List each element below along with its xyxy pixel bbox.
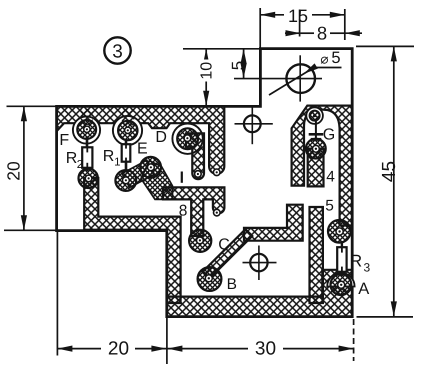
phi5 hole top right: [286, 64, 315, 93]
top-right copper: pentagon with slot + right edge band: [292, 106, 353, 226]
bottom copper band: [167, 270, 353, 317]
pad F: [77, 120, 96, 139]
svg-text:3: 3: [363, 261, 370, 275]
pad under R1: [115, 170, 136, 191]
svg-text:D: D: [155, 129, 167, 146]
pad C at bottom of branch: [189, 230, 211, 252]
svg-text:5: 5: [331, 49, 340, 67]
svg-text:10: 10: [199, 62, 216, 80]
svg-text:⌀: ⌀: [320, 52, 328, 67]
svg-text:3: 3: [112, 42, 123, 63]
clearance bite around pad E: [113, 116, 142, 145]
strip end pad hole (pad 2): [213, 169, 220, 176]
svg-text:30: 30: [255, 339, 276, 360]
dimension 8 top: [285, 10, 362, 37]
extension line y=49 left of board corner: [183, 48, 260, 50]
svg-text:5: 5: [229, 61, 248, 70]
svg-text:20: 20: [4, 161, 24, 181]
dimension 5 vertical: [243, 49, 245, 79]
svg-text:5: 5: [325, 198, 334, 215]
svg-text:C: C: [218, 237, 230, 254]
resistor R3 body: [337, 247, 346, 272]
pad A: [331, 274, 352, 295]
resistor R2 body: [82, 147, 92, 168]
svg-text:45: 45: [379, 161, 400, 182]
svg-text:15: 15: [288, 6, 308, 26]
pad B: [198, 267, 222, 291]
junction peanut: bridge polygon between pad under R1 and node pad: [122, 160, 154, 187]
pad 1 hole at trace end: [195, 171, 202, 178]
svg-text:8: 8: [179, 202, 188, 219]
svg-text:2: 2: [77, 159, 83, 171]
trace from pad 4 down: [308, 149, 324, 187]
free hole bottom middle: [250, 254, 267, 271]
svg-text:4: 4: [326, 168, 335, 185]
svg-text:E: E: [137, 141, 148, 158]
trace of pad B: horizontal band with up stub: [244, 205, 303, 241]
hatched neck joining pad F to band: [81, 109, 93, 125]
bottom dimensions 20 and 30: [57, 232, 353, 364]
svg-text:A: A: [358, 280, 369, 298]
lower middle vertical trace into bottom band: [310, 207, 323, 303]
pad 4: [306, 139, 326, 159]
clearance bite around pad A: [327, 273, 354, 287]
hatched neck joining pad E to band: [122, 109, 134, 126]
dimension 10 vertical: [205, 49, 207, 106]
svg-text:1: 1: [114, 157, 120, 169]
dimension 20 left: [4, 106, 56, 230]
svg-text:R: R: [103, 148, 115, 165]
pad under R2: [79, 169, 98, 188]
board outline: [57, 49, 353, 317]
horizontal trace with branch to pad C and right end branch (pad 3): [163, 187, 224, 236]
copper: top-left band with right strip (net of pads F,E,D area): [57, 106, 225, 174]
left L-trace: pad under R2 down then right then down to bottom band: [84, 178, 180, 303]
clearance bite around pad F: [73, 116, 100, 143]
svg-text:F: F: [59, 132, 69, 149]
pad numbers: [181, 172, 183, 183]
pad D: [177, 128, 198, 149]
pad 5 at bottom of right band: [328, 220, 351, 243]
resistor R1 body: [122, 144, 131, 162]
resistor R2 leads: [86, 136, 89, 147]
clearance ring around pad D: [172, 124, 202, 154]
dimension 15 top: [260, 8, 345, 48]
diagonal trace from pad B: [203, 229, 253, 278]
resistor R1 leads: [125, 140, 128, 145]
figure number 3 in circle: [104, 37, 130, 63]
svg-text:R: R: [350, 252, 362, 271]
svg-text:20: 20: [108, 339, 129, 360]
node pad E-net: [140, 157, 161, 178]
jumper wire G: [315, 120, 317, 141]
svg-text:8: 8: [317, 23, 327, 44]
diagonal connector from node pad into horizontal trace: [141, 161, 173, 200]
pad E: [118, 121, 137, 140]
trace from pad D going right and down to pad 1: [186, 133, 204, 179]
svg-text:B: B: [227, 276, 237, 293]
small pad at slot top: [310, 111, 320, 121]
pad 3 hole at right-end branch: [214, 209, 221, 216]
dimension 45 right: [356, 46, 414, 317]
resistor R3 leads: [341, 242, 343, 248]
svg-text:G: G: [323, 126, 335, 143]
leader line for phi5: [269, 68, 342, 96]
clearance ring around small pad at slot top: [306, 107, 323, 124]
svg-text:R: R: [66, 150, 78, 167]
free hole top middle: [244, 115, 261, 132]
